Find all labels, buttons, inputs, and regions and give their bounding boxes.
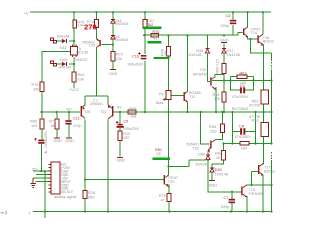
junction (224,112)	[223, 111, 225, 113]
wire diff tail	[85, 96, 108, 105]
svg-text:BD911: BD911	[263, 39, 274, 43]
diode D40	[206, 155, 210, 159]
wire right vertical dashes2	[271, 152, 273, 160]
junction (250.5,39)	[249, 38, 251, 40]
svg-text:+U: +U	[24, 12, 29, 16]
diode D44	[111, 19, 115, 21]
svg-text:2k1: 2k1	[216, 156, 222, 160]
wire T15 base link	[201, 112, 210, 144]
wire T29 base input	[85, 179, 164, 181]
svg-text:R77: R77	[49, 120, 56, 124]
junction (247.7,12.2)	[247, 11, 249, 13]
junction (200.7,112)	[200, 111, 202, 113]
junction (231,211.5)	[230, 210, 232, 212]
wire rail B mid-top	[144, 33, 243, 36]
wire rail E lower-right	[224, 143, 241, 145]
junction (232.5,143.5)	[231, 142, 233, 144]
svg-text:1N4004: 1N4004	[115, 22, 128, 26]
transistor T19	[241, 187, 242, 196]
wire T17 collector	[263, 143, 265, 164]
wire VAS out horizontal	[251, 39, 272, 53]
svg-text:GND: GND	[109, 72, 118, 76]
junction (113,12.2)	[112, 11, 114, 13]
svg-text:1N4148: 1N4148	[227, 53, 240, 57]
junction (251.5,185)	[250, 184, 252, 186]
svg-text:MPSA06: MPSA06	[193, 72, 208, 76]
net bar 1	[143, 27, 162, 29]
diode D43	[62, 62, 66, 66]
wire connector pin rows	[33, 171, 49, 181]
svg-text:IN+: IN+	[67, 107, 74, 111]
junction (255.5,143.5)	[254, 142, 256, 144]
svg-text:T24: T24	[84, 110, 91, 114]
svg-text:T15: T15	[192, 146, 199, 150]
svg-text:IN-: IN-	[117, 106, 123, 110]
wire T22 collector drop	[107, 120, 109, 212]
svg-text:1N4148: 1N4148	[56, 35, 69, 39]
svg-text:analog signal: analog signal	[54, 195, 77, 199]
junction (168.5,166.4)	[167, 165, 169, 167]
svg-text:J5+: J5+	[32, 168, 39, 172]
svg-text:10k: 10k	[78, 24, 84, 28]
wire T20 collector	[215, 75, 224, 113]
wire C10 drop	[144, 61, 146, 112]
junction (96.5,12.2)	[95, 11, 97, 13]
diode D37	[222, 48, 226, 50]
junction (85,211.5)	[84, 210, 86, 212]
ground GND D30	[209, 179, 215, 181]
resistor R60	[222, 64, 226, 74]
wire T15 emitter	[207, 151, 209, 155]
wire T29 emitter	[168, 185, 170, 212]
wire T11 base	[171, 95, 184, 97]
svg-text:R76: R76	[32, 83, 39, 87]
junction (208,159.9)	[207, 159, 209, 161]
svg-text:220p: 220p	[221, 205, 229, 209]
junction (44.8,211.5)	[44, 210, 46, 212]
wire T24 collector drop	[84, 120, 86, 212]
resistor R78	[83, 191, 87, 199]
wire T17 emitter	[262, 175, 264, 212]
wire C7 branch	[231, 192, 233, 212]
pads D43	[51, 61, 54, 64]
svg-text:47: 47	[161, 198, 165, 202]
wire R80 R77 stubs	[42, 112, 69, 140]
transistor T15	[210, 141, 211, 149]
resistor R22	[118, 131, 122, 141]
junction (108,211.5)	[107, 210, 109, 212]
connector pins	[49, 164, 52, 192]
junction (74,64)	[73, 63, 75, 65]
wire connector pin1	[36, 174, 49, 176]
svg-text:220u/25V: 220u/25V	[44, 131, 48, 148]
svg-text:100u/63V: 100u/63V	[127, 62, 144, 66]
svg-text:470: 470	[214, 97, 220, 101]
svg-text:1k8: 1k8	[130, 115, 136, 119]
junction (230.5,80.5)	[229, 79, 231, 81]
resistor R62	[222, 151, 226, 161]
ground GND C11	[66, 137, 72, 139]
wire top rail VCC	[30, 11, 271, 13]
svg-text:220p: 220p	[221, 24, 229, 28]
wire rail D right	[212, 80, 272, 82]
svg-text:1N4148: 1N4148	[188, 53, 201, 57]
wire left L net	[42, 52, 70, 112]
wire D37 chain	[223, 44, 225, 113]
svg-text:10K: 10K	[78, 77, 85, 81]
junction (253.5,80.5)	[252, 79, 254, 81]
transistor T29	[164, 175, 165, 184]
junction (232.5,112)	[231, 111, 233, 113]
resistor R61	[72, 72, 76, 82]
junction (85,179.5)	[84, 178, 86, 180]
svg-text:Bias: Bias	[156, 101, 163, 105]
junction (74,41)	[73, 40, 75, 42]
svg-text:1N4148: 1N4148	[215, 173, 228, 177]
svg-text:C4: C4	[240, 84, 245, 88]
svg-text:C3: C3	[226, 14, 231, 18]
junction (120,112)	[119, 111, 121, 113]
transistor T11	[184, 92, 185, 101]
junction (112.8,44.5)	[112, 43, 114, 45]
svg-text:2k2: 2k2	[147, 23, 153, 27]
wire right vertical lower	[271, 160, 273, 212]
junction (263.5,112)	[262, 111, 264, 113]
junction (144.2,35.2)	[143, 34, 145, 36]
wire T16 emitter chain	[263, 45, 265, 144]
wire R65 chain	[215, 112, 222, 140]
svg-text:680: 680	[88, 195, 94, 199]
junction (145,112)	[144, 111, 146, 113]
resistor R49	[167, 47, 171, 57]
wire T11 emitter down	[187, 102, 189, 112]
svg-text:C9: C9	[123, 120, 128, 124]
ground GND D37 top	[221, 42, 227, 44]
svg-text:180: 180	[241, 147, 247, 151]
svg-text:R63: R63	[240, 72, 247, 76]
svg-text:R53: R53	[252, 119, 259, 123]
junction (56.5,112)	[55, 111, 57, 113]
svg-text:T14: T14	[251, 31, 258, 35]
svg-text:10k: 10k	[33, 88, 39, 92]
svg-text:R70: R70	[153, 30, 160, 34]
connector pin labels	[61, 163, 73, 195]
junction (232,191.8)	[231, 191, 233, 193]
junction (69,112)	[68, 111, 70, 113]
trimmer P6	[166, 91, 171, 100]
junction (224,35.5)	[223, 34, 225, 36]
junction (233,12.2)	[232, 11, 234, 13]
wire zobel lower loop	[233, 112, 256, 144]
transistor T22	[112, 106, 113, 117]
connector SV1 box	[51, 162, 60, 194]
svg-text:180: 180	[50, 124, 56, 128]
wire R74 drop	[96, 12, 98, 39]
junction (263.5,80.5)	[262, 79, 264, 81]
svg-text:BD911: BD911	[264, 169, 275, 173]
wire bottom rail	[33, 211, 272, 213]
junction (271.5,185)	[270, 184, 272, 186]
net bar 2	[148, 41, 162, 43]
junction (271.5,211.5)	[270, 210, 272, 212]
svg-text:T29: T29	[168, 180, 175, 184]
svg-text:47n/250V: 47n/250V	[235, 135, 252, 139]
wire D40 row	[189, 159, 206, 161]
junction (263,211.5)	[262, 210, 264, 212]
resistor R67 series base	[128, 110, 136, 114]
svg-text:BD139: BD139	[76, 51, 88, 55]
transistor T24	[81, 106, 82, 117]
net bar 4	[153, 158, 171, 160]
svg-text:D43: D43	[60, 58, 67, 62]
capacitor C13 elco	[38, 140, 44, 142]
svg-text:R69: R69	[129, 107, 136, 111]
svg-text:C11: C11	[73, 117, 80, 121]
wire D43 row	[56, 63, 74, 65]
net bar 3	[154, 57, 170, 59]
junction (187.5,112)	[186, 111, 188, 113]
transistor T20	[210, 77, 211, 85]
junction (263,12.2)	[262, 11, 264, 13]
wire zobel upper loop	[231, 77, 254, 91]
resistor R75	[73, 20, 76, 28]
wire rail E lower-right cont	[249, 143, 272, 145]
wire T11 collector up	[187, 36, 189, 92]
wire T19 collector net	[247, 184, 272, 186]
wire right vertical mid	[271, 70, 273, 144]
svg-text:.47/7W: .47/7W	[248, 104, 260, 108]
svg-text:BUT06LS: BUT06LS	[232, 107, 249, 111]
pads D42	[51, 38, 54, 41]
svg-text:C8: C8	[239, 125, 244, 129]
svg-text:DB-S10: DB-S10	[61, 190, 73, 194]
diode D39	[205, 48, 209, 50]
resistor R21	[143, 20, 147, 28]
wire D42 row	[56, 40, 74, 42]
junction (224,80.5)	[223, 79, 225, 81]
resistor R66 series zobel2	[240, 141, 249, 145]
ground left input	[31, 178, 36, 187]
resistor R76	[40, 82, 44, 92]
junction (271.5,80.5)	[270, 79, 272, 81]
junction (168.5,35.5)	[167, 34, 169, 36]
transistor T17	[258, 165, 259, 174]
wire T16 collector	[262, 12, 264, 34]
svg-text:417: 417	[153, 37, 159, 41]
svg-text:T23: T23	[89, 44, 96, 48]
svg-text:CM4207: CM4207	[74, 58, 88, 62]
wire T19 emitter	[246, 196, 248, 212]
wire T9 chain lower	[73, 57, 75, 88]
svg-text:T22: T22	[100, 110, 107, 114]
svg-text:TIP3055: TIP3055	[249, 192, 263, 196]
junction (263.5,143.5)	[262, 142, 264, 144]
junction (247,211.5)	[246, 210, 248, 212]
wire T19 base net	[208, 160, 241, 192]
ground GND R77	[54, 137, 60, 139]
wire T9 chain vertical	[73, 12, 75, 46]
svg-text:2N5401: 2N5401	[90, 102, 103, 106]
svg-text:100u/25V: 100u/25V	[123, 127, 140, 131]
svg-text:270: 270	[84, 22, 97, 31]
svg-text:D40: D40	[198, 152, 205, 156]
wire T23 chain	[96, 48, 98, 96]
svg-text:R61: R61	[78, 73, 85, 77]
capacitor C9	[118, 124, 123, 126]
capacitor C8	[240, 128, 242, 135]
svg-text:R72: R72	[116, 53, 123, 57]
svg-text:GND: GND	[220, 39, 229, 43]
wire D44 chain	[112, 12, 114, 69]
junction (187.5,35.5)	[186, 34, 188, 36]
svg-text:C10: C10	[132, 55, 139, 59]
diode D42	[62, 39, 66, 43]
svg-text:R64: R64	[213, 93, 220, 97]
resistor R70 series	[151, 33, 159, 37]
resistor R63 series zobel	[237, 75, 247, 79]
junction (271.5,143.5)	[270, 142, 272, 144]
svg-text:D42: D42	[60, 46, 67, 50]
svg-text:T11: T11	[189, 95, 195, 99]
capacitor C7	[229, 199, 235, 201]
svg-text:22k: 22k	[116, 57, 122, 61]
resistor R53	[261, 123, 269, 137]
svg-text:47n/250V: 47n/250V	[232, 95, 249, 99]
svg-text:+VCC: +VCC	[69, 88, 79, 92]
capacitor C4	[240, 87, 242, 93]
svg-text:GND: GND	[209, 183, 218, 187]
transistor T16	[257, 35, 258, 43]
junction (222.3,112)	[221, 111, 223, 113]
junction (169.5,211.5)	[168, 210, 170, 212]
svg-text:R80: R80	[30, 120, 37, 124]
wire T14 collector	[247, 12, 249, 27]
junction (145,12.2)	[144, 11, 146, 13]
wire rail C mid (IN+ segment)	[42, 111, 81, 113]
resistor R80	[40, 119, 44, 129]
wire connector riser vertical	[44, 171, 46, 218]
diode D30	[210, 167, 214, 169]
wire R62 chain	[212, 144, 224, 181]
capacitor C3	[230, 20, 236, 22]
svg-text:2: 2	[29, 212, 31, 216]
wire R49 chain	[169, 36, 190, 176]
wire R21 chain	[144, 12, 146, 54]
resistor R74	[95, 20, 99, 28]
svg-text:GND: GND	[65, 139, 74, 143]
resistor R79	[167, 194, 171, 202]
svg-text:1N4148: 1N4148	[195, 163, 208, 167]
junction (41.3,171.2)	[40, 170, 42, 172]
svg-text:220: 220	[210, 129, 216, 133]
resistor R77	[55, 119, 59, 129]
wire right vertical upper	[271, 53, 273, 61]
corner marks bottom-left	[1, 211, 7, 215]
transistor T9 box	[71, 47, 78, 56]
transistor T23	[99, 40, 100, 46]
wire rail C mid (feedback segment)	[112, 111, 272, 113]
wire C3 stub	[232, 12, 234, 35]
svg-text:D37: D37	[227, 49, 234, 53]
wire C9 drop	[119, 112, 121, 157]
ground GND D44chain	[110, 69, 116, 71]
svg-text:GND: GND	[116, 158, 125, 162]
junction (216,112)	[215, 111, 217, 113]
junction (255.5,112)	[254, 111, 256, 113]
junction (74,12.2)	[73, 11, 75, 13]
junction (44.8,171.2)	[44, 170, 46, 172]
junction (271.5,112)	[270, 111, 272, 113]
wire T14 emitter to T16 base	[248, 37, 258, 40]
svg-text:1k5: 1k5	[31, 124, 37, 128]
junction (223.5,143.5)	[222, 142, 224, 144]
transistor T14	[243, 29, 244, 36]
svg-text:470p: 470p	[73, 124, 81, 128]
junction (41.5,112)	[40, 111, 42, 113]
svg-text:1N4004: 1N4004	[115, 38, 128, 42]
wire right vertical dashes1	[271, 62, 273, 69]
svg-text:R60 122: R60 122	[216, 59, 220, 73]
resistor R52	[261, 90, 269, 104]
svg-text:GND: GND	[53, 139, 62, 143]
ground GND R22	[117, 157, 123, 159]
resistor R65	[220, 124, 224, 133]
svg-text:39: 39	[157, 152, 161, 156]
svg-text:C7: C7	[224, 196, 229, 200]
junction (168.5,112)	[167, 111, 169, 113]
resistor R72	[111, 52, 115, 62]
wire T23 base link	[101, 44, 113, 46]
svg-text:100: 100	[123, 136, 129, 140]
svg-text:D30: D30	[215, 168, 222, 172]
capacitor C11	[65, 120, 71, 122]
svg-text:39k: 39k	[164, 50, 168, 56]
wire T17 base link	[252, 172, 259, 186]
capacitor C10	[141, 55, 147, 57]
svg-text:1N4148: 1N4148	[58, 66, 71, 70]
svg-text:R22: R22	[123, 132, 130, 136]
wire D39 chain	[208, 36, 211, 82]
resistor R64	[222, 92, 226, 102]
svg-text:P6: P6	[159, 92, 164, 96]
svg-text:+I: +I	[44, 150, 47, 154]
svg-text:D39: D39	[196, 49, 203, 53]
diode D4	[111, 34, 115, 36]
